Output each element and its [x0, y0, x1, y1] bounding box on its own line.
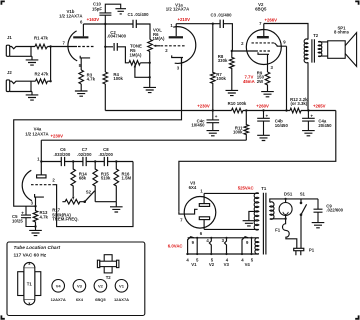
- svg-text:68k: 68k: [79, 176, 87, 181]
- svg-text:+210V: +210V: [178, 17, 191, 22]
- svg-text:100k: 100k: [233, 130, 243, 135]
- chart tube V3: [73, 280, 86, 293]
- V1b cathode: [80, 56, 90, 70]
- svg-text:117 VAC 60 Hz: 117 VAC 60 Hz: [14, 253, 47, 259]
- resistor R17 500k(RA): [62, 199, 84, 204]
- V2 grid2/screen (dashed): [252, 42, 275, 44]
- svg-text:C1 .01/400: C1 .01/400: [127, 12, 149, 17]
- heater bus top rail: [188, 237, 259, 239]
- svg-text:S2: S2: [86, 189, 92, 194]
- wire C2 to tone pot: [117, 47, 129, 63]
- capacitor C4c 10/450: [207, 111, 220, 131]
- svg-text:R1 47k: R1 47k: [34, 36, 48, 41]
- svg-text:1: 1: [37, 156, 40, 161]
- T1 primary bottom wire: [270, 218, 286, 220]
- svg-text:7: 7: [180, 218, 183, 223]
- corner mark bottom-right: [355, 315, 358, 318]
- wire V3 plate1 to T1: [204, 192, 259, 194]
- tremolo B+ rail: [41, 139, 246, 141]
- svg-text:P1: P1: [309, 248, 315, 253]
- B+ bus: [105, 110, 335, 112]
- chart tube V2: [94, 280, 107, 293]
- V3 cathode: [179, 209, 198, 214]
- V4 heater loop: [242, 237, 252, 254]
- T1 heater winding: [255, 238, 259, 254]
- resistor R16 1.5M: [114, 162, 119, 202]
- V1b plate: [73, 36, 88, 38]
- svg-text:1M(A): 1M(A): [153, 36, 166, 41]
- svg-text:V3: V3: [77, 283, 83, 288]
- capacitor C10 15pF: [99, 4, 120, 24]
- svg-text:+266V: +266V: [265, 18, 278, 23]
- svg-text:.022/600: .022/600: [326, 208, 343, 213]
- T2 primary to B+ bus: [307, 62, 309, 110]
- svg-text:6: 6: [200, 231, 203, 236]
- corner mark top-left: [1, 1, 4, 4]
- V2 plate wire to T2: [264, 24, 308, 40]
- svg-text:V2: V2: [209, 262, 215, 267]
- wire node down to R2: [50, 47, 52, 82]
- V1a plate: [169, 36, 183, 38]
- svg-text:.02/200: .02/200: [77, 152, 92, 157]
- svg-text:4: 4: [206, 238, 209, 243]
- svg-text:10/25: 10/25: [12, 218, 23, 223]
- svg-text:6BQ5: 6BQ5: [255, 6, 267, 11]
- svg-text:+: +: [310, 114, 313, 119]
- tube V4a envelope: [22, 170, 32, 200]
- resistor R14 68k: [71, 162, 76, 197]
- tone wiper to ground wire: [135, 66, 150, 77]
- resistor R4 100k: [103, 72, 108, 84]
- wire C1 to volume pot: [136, 24, 150, 40]
- V2 plate: [257, 36, 269, 38]
- svg-text:2: 2: [241, 41, 244, 46]
- capacitor C1 .01/400: [133, 20, 136, 28]
- transformer T2 primary: [304, 39, 308, 63]
- svg-text:V4: V4: [245, 262, 251, 267]
- resistor R15 510k: [93, 162, 98, 202]
- svg-text:2W: 2W: [257, 79, 264, 84]
- V2 heater wire: [209, 238, 211, 254]
- resistor R1 47k: [35, 44, 48, 49]
- svg-text:J1: J1: [7, 35, 12, 40]
- svg-text:F1: F1: [275, 227, 281, 232]
- V3 plate 2: [199, 217, 209, 220]
- svg-text:525VAC: 525VAC: [238, 185, 254, 190]
- T1 HV center tap to ground: [249, 211, 259, 220]
- svg-text:8 ohms: 8 ohms: [334, 30, 350, 35]
- svg-text:V4: V4: [56, 283, 62, 288]
- node junction: [49, 45, 51, 47]
- resistor R13 4.7k: [33, 206, 38, 230]
- T1 primary top wire: [270, 199, 318, 203]
- svg-text:5: 5: [251, 258, 254, 263]
- svg-text:4: 4: [186, 258, 189, 263]
- svg-text:6BQ5: 6BQ5: [95, 297, 106, 302]
- svg-text:2: 2: [52, 178, 55, 183]
- svg-text:V1: V1: [191, 262, 197, 267]
- V3 heater wire: [225, 238, 227, 254]
- svg-text:1/2 12AX7A: 1/2 12AX7A: [25, 131, 48, 136]
- capacitor C7 .02/200: [83, 157, 86, 166]
- resistor R3 4.7k: [79, 70, 84, 84]
- svg-text:.033/200: .033/200: [54, 152, 71, 157]
- svg-text:6X4: 6X4: [189, 185, 197, 190]
- svg-text:R2 47k: R2 47k: [35, 72, 49, 77]
- speaker SP1: [328, 41, 346, 59]
- ground (input jacks): [26, 56, 39, 65]
- chart tube V4: [52, 280, 65, 293]
- resistor R11 100k: [244, 111, 249, 141]
- tube V1b envelope: [68, 31, 77, 61]
- jack J1: [6, 45, 9, 56]
- svg-text:330k: 330k: [218, 58, 228, 63]
- resistor R7 100k: [211, 24, 216, 111]
- svg-text:V1: V1: [119, 283, 125, 288]
- T1 primary: [270, 202, 274, 219]
- svg-text:+: +: [266, 114, 269, 119]
- lamp DS1: [279, 203, 292, 216]
- svg-text:6.0VAC: 6.0VAC: [168, 244, 183, 249]
- ground (VOL/TONE): [143, 87, 156, 92]
- transformer T1 HV secondary: [254, 193, 259, 230]
- volume pot R6 1M(A): [148, 40, 153, 52]
- svg-text:V3: V3: [224, 262, 230, 267]
- V1a cathode to V4a cathode (trem) wire: [14, 58, 182, 207]
- svg-text:4.7k: 4.7k: [40, 215, 49, 220]
- svg-text:1: 1: [200, 189, 203, 194]
- switch S2: [85, 191, 95, 202]
- svg-text:9: 9: [283, 39, 286, 44]
- svg-text:10/450: 10/450: [275, 123, 289, 128]
- svg-text:.0047/400: .0047/400: [107, 34, 127, 39]
- svg-text:TREM.FREQ.: TREM.FREQ.: [52, 217, 78, 222]
- svg-text:+: +: [215, 114, 218, 119]
- resistor R10 100k: [232, 108, 243, 113]
- capacitor C3 .01/400: [220, 20, 223, 28]
- V4a grid feedback loop: [54, 162, 133, 227]
- corner mark top-right: [355, 1, 358, 4]
- V2 beam connector to pin 9: [274, 43, 286, 46]
- svg-text:.02/200: .02/200: [99, 152, 114, 157]
- svg-text:T1: T1: [27, 281, 33, 286]
- ground (trem): [110, 207, 123, 212]
- svg-text:1/2 12AX7A: 1/2 12AX7A: [59, 14, 82, 19]
- svg-text:9: 9: [246, 240, 249, 245]
- svg-text:9: 9: [192, 240, 195, 245]
- svg-text:C3 .01/400: C3 .01/400: [210, 13, 232, 18]
- svg-text:+163V: +163V: [87, 17, 100, 22]
- svg-text:3: 3: [31, 201, 34, 206]
- svg-text:T2: T2: [313, 33, 319, 38]
- vertical wire R4 (plate load): [104, 24, 106, 72]
- svg-text:7: 7: [63, 40, 66, 45]
- svg-text:V2: V2: [98, 283, 104, 288]
- T1 core: [263, 193, 266, 255]
- tone pot R5 1M(A): [129, 61, 150, 66]
- ground (V4a cathode): [29, 230, 42, 235]
- capacitor C6 .033/200: [61, 157, 64, 166]
- chart T2 symbol: [104, 255, 112, 273]
- svg-text:+265V: +265V: [313, 104, 326, 109]
- heater bus bottom rail: [186, 253, 258, 255]
- capacitor C9 .022/600: [314, 199, 323, 223]
- tube V3 envelope: [184, 197, 216, 229]
- jack J2: [6, 80, 9, 92]
- svg-text:100k: 100k: [216, 76, 226, 81]
- svg-text:Tube Location Chart: Tube Location Chart: [14, 245, 61, 251]
- V4a plate: [37, 175, 46, 178]
- svg-text:510k: 510k: [101, 176, 111, 181]
- chart tube V1: [115, 280, 128, 293]
- ground (T1 CT): [243, 221, 256, 226]
- svg-text:(or 3.3k): (or 3.3k): [290, 101, 307, 106]
- svg-text:3: 3: [271, 65, 274, 70]
- ground (V1b cathode): [75, 84, 88, 96]
- trem ground wire: [95, 202, 116, 207]
- svg-text:6X4: 6X4: [76, 297, 84, 302]
- V1 heater loop: [188, 237, 198, 254]
- capacitor C2 .0047/400: [114, 43, 117, 51]
- svg-text:+: +: [21, 210, 24, 215]
- ground (R9): [261, 92, 274, 97]
- cathode node wire: [34, 205, 36, 207]
- svg-text:15pF: 15pF: [92, 7, 102, 12]
- svg-text:T1: T1: [261, 186, 267, 191]
- ground (C4a): [302, 131, 315, 136]
- switch S1: [301, 199, 307, 248]
- wire VOL bottom to ground: [149, 52, 151, 88]
- svg-text:DS1: DS1: [284, 191, 293, 196]
- svg-text:7: 7: [259, 21, 262, 26]
- svg-text:4.7k: 4.7k: [87, 77, 96, 82]
- svg-text:6: 6: [80, 19, 83, 24]
- resistor R8 330k: [230, 51, 235, 90]
- ground (C9): [312, 223, 325, 228]
- fuse F1: [282, 219, 296, 249]
- V2 grid1 (dashed): [256, 50, 271, 52]
- tube V2 envelope: [246, 30, 281, 65]
- ground (C4c): [207, 131, 220, 136]
- svg-text:1M(A): 1M(A): [130, 53, 143, 58]
- V2 cathode: [258, 52, 269, 72]
- wire R4 to B+ bus: [104, 84, 106, 111]
- wires T2 secondary to speaker: [318, 42, 328, 56]
- svg-text:3: 3: [222, 238, 225, 243]
- svg-text:R10 100k: R10 100k: [228, 101, 247, 106]
- svg-text:100k: 100k: [113, 76, 123, 81]
- svg-text:T2: T2: [106, 275, 112, 280]
- V1a cathode: [172, 55, 183, 66]
- R14 wiper arrow into R17: [72, 197, 74, 200]
- plug P1: [294, 248, 304, 250]
- capacitor C5 10/25: [21, 206, 36, 226]
- svg-text:12AX7A: 12AX7A: [51, 297, 66, 302]
- trem signal wire: [41, 161, 133, 163]
- tube V1a envelope: [173, 27, 196, 64]
- svg-text:12AX7A: 12AX7A: [114, 297, 129, 302]
- svg-text:1/2 12AX7A: 1/2 12AX7A: [166, 7, 189, 12]
- capacitor C4b 10/450: [257, 111, 270, 136]
- T2 core: [312, 39, 315, 62]
- svg-text:3: 3: [177, 65, 180, 70]
- svg-text:+260V: +260V: [256, 104, 269, 109]
- wire R1 to grid node: [48, 46, 78, 48]
- T2 secondary: [318, 41, 322, 56]
- wire C3 to V2 grid: [223, 24, 255, 51]
- wire V3 plate2 to T1: [204, 228, 259, 230]
- node plate/C10 wire: [83, 23, 132, 25]
- svg-text:S1: S1: [300, 191, 306, 196]
- svg-text:+230V: +230V: [51, 133, 64, 138]
- resistor R9 150 2W: [265, 72, 270, 92]
- svg-text:45mA: 45mA: [243, 79, 255, 84]
- corner mark bottom-left: [1, 315, 4, 318]
- V1a grid wire (dashed, from wiper): [161, 45, 187, 47]
- tube location chart box: [7, 242, 145, 316]
- svg-text:1.5M: 1.5M: [122, 176, 132, 181]
- chart T1 symbol: [18, 272, 24, 296]
- svg-text:J2: J2: [7, 70, 12, 75]
- resistor R2 47k: [36, 79, 51, 84]
- V1b grid (dashed): [78, 46, 94, 48]
- svg-text:20/450: 20/450: [318, 123, 332, 128]
- svg-text:2: 2: [165, 48, 168, 53]
- V4a grid (dashed): [31, 184, 54, 186]
- capacitor C4a 20/450: [302, 111, 315, 131]
- svg-text:+230V: +230V: [197, 104, 210, 109]
- resistor R12 2.2k: [290, 108, 301, 113]
- V3 plate 1: [199, 204, 209, 207]
- wire C2 branch: [105, 46, 113, 48]
- screen wire to bus: [286, 46, 288, 110]
- V1a plate wire to C3/R7: [176, 23, 220, 25]
- svg-text:10/450: 10/450: [191, 122, 205, 127]
- svg-text:1: 1: [170, 23, 173, 28]
- V4a cathode: [35, 194, 44, 206]
- ground (C4b): [257, 135, 270, 140]
- ground (C10): [115, 9, 126, 14]
- bus to rectifier rail: [179, 111, 336, 212]
- ground (R8): [226, 90, 239, 95]
- capacitor C8 .02/200: [104, 157, 107, 166]
